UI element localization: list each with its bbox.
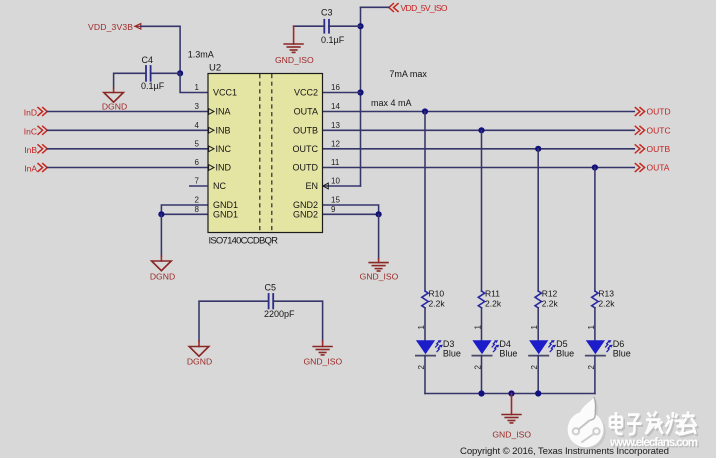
wire junction down to U2 pin 1 (180, 73, 208, 92)
svg-text:IND: IND (216, 163, 232, 173)
svg-text:1: 1 (587, 325, 596, 330)
svg-text:R13: R13 (598, 288, 614, 298)
wire R12 to D5 (537, 308, 539, 341)
wire R11 to D4 (481, 308, 483, 341)
U2 pin 15 GND2 (293, 196, 340, 211)
node OUTD row / R13 column junction (592, 164, 598, 170)
svg-text:InD: InD (24, 108, 37, 118)
input port InC (24, 126, 48, 136)
svg-text:2200pF: 2200pF (264, 309, 295, 319)
svg-text:Blue: Blue (499, 348, 517, 358)
U2 pin 9 GND2 (293, 205, 336, 220)
svg-text:OUTA: OUTA (647, 163, 670, 173)
svg-text:16: 16 (331, 83, 340, 92)
wire U2 pin11 OUTD row (323, 167, 635, 169)
svg-text:DGND: DGND (150, 272, 175, 282)
svg-text:12: 12 (331, 139, 340, 148)
wire U2 pin14 OUTA row (323, 111, 635, 113)
svg-text:1: 1 (530, 325, 539, 330)
svg-text:14: 14 (331, 102, 340, 111)
svg-text:2.2k: 2.2k (485, 299, 502, 309)
svg-text:max 4 mA: max 4 mA (371, 98, 412, 108)
wire D6 to bus (594, 356, 596, 394)
output port OUTA (635, 163, 670, 173)
svg-text:OUTC: OUTC (293, 144, 319, 154)
svg-text:R12: R12 (542, 288, 558, 298)
svg-text:C3: C3 (321, 8, 333, 18)
wire U2 pin16 to vertical (323, 92, 361, 94)
wire VDD_3V3B to vertical (141, 26, 180, 73)
watermark url text (609, 437, 700, 451)
node VDD_3V3B/C4/VCC1 junction (177, 70, 183, 76)
svg-text:OUTB: OUTB (293, 126, 318, 136)
wire D4 to bus (481, 356, 483, 394)
U2 pin 13 OUTB (293, 121, 340, 136)
svg-text:VCC1: VCC1 (213, 88, 237, 98)
svg-text:Blue: Blue (443, 348, 461, 358)
U2 pin 3 INA (195, 102, 231, 117)
capacitor C3 (321, 8, 345, 46)
svg-text:GND_ISO: GND_ISO (492, 429, 531, 439)
U2 pin 8 GND1 (195, 205, 238, 220)
svg-text:1: 1 (474, 325, 483, 330)
node OUTB row / R11 column junction (478, 127, 484, 133)
watermark logo (568, 397, 606, 450)
svg-text:C5: C5 (265, 282, 277, 292)
LED D6 (586, 339, 631, 358)
wire C3 left lead (294, 25, 325, 27)
ground GND_ISO (right of U2) (360, 259, 399, 281)
wire C5 left lead (199, 301, 269, 341)
isolation barrier dashed lines (260, 74, 272, 232)
svg-text:VCC2: VCC2 (294, 88, 318, 98)
svg-text:7: 7 (195, 177, 200, 186)
svg-text:2: 2 (195, 196, 200, 205)
wire U2 pin12 OUTC row (323, 148, 635, 150)
capacitor C4 (141, 55, 165, 91)
svg-text:GND2: GND2 (293, 210, 318, 220)
svg-text:VDD_5V_ISO: VDD_5V_ISO (401, 3, 448, 13)
U2 pin 6 IND (195, 158, 232, 173)
op-amp U2 ISO7140CCDBQR body (208, 62, 323, 246)
svg-text:GND_ISO: GND_ISO (275, 55, 314, 65)
wire U2 pin9 GND2 (323, 213, 379, 215)
svg-text:8: 8 (195, 205, 200, 214)
svg-text:3: 3 (195, 102, 200, 111)
svg-text:R10: R10 (429, 288, 445, 298)
svg-text:10: 10 (331, 177, 340, 186)
node VCC2 junction (357, 89, 363, 95)
node C3 junction (357, 23, 363, 29)
node GND2 junction (376, 211, 382, 217)
ground DGND (under C5) (187, 341, 212, 366)
node bus/D4 junction (478, 390, 484, 396)
svg-text:InA: InA (24, 164, 37, 174)
wire U2 pin 2 GND1 (161, 205, 208, 214)
svg-text:OUTB: OUTB (647, 144, 671, 154)
output port OUTB (635, 144, 670, 154)
svg-text:C4: C4 (142, 55, 154, 65)
node OUTA row / R10 column junction (422, 108, 428, 114)
svg-text:www.elecfans.com: www.elecfans.com (609, 437, 698, 449)
svg-text:R11: R11 (485, 288, 500, 298)
U2 pin 2 GND1 (195, 196, 238, 211)
wire VDD_5V_ISO to vertical (361, 6, 389, 8)
svg-text:OUTC: OUTC (647, 126, 671, 136)
svg-text:InC: InC (24, 126, 37, 136)
svg-text:EN: EN (305, 181, 318, 191)
wire R13 column upper (594, 168, 596, 292)
wire InA to U2 pin 6 (47, 167, 208, 169)
U2 pin 5 INC (195, 139, 232, 154)
wire vertical VDD rail to EN (360, 7, 362, 186)
resistor R13 (592, 288, 616, 308)
input port InA (24, 164, 47, 174)
svg-text:1: 1 (417, 325, 426, 330)
svg-text:2.2k: 2.2k (429, 299, 446, 309)
U2 pin 16 VCC2 (294, 83, 340, 98)
node OUTC row / R12 column junction (535, 146, 541, 152)
svg-text:GND_ISO: GND_ISO (303, 356, 342, 366)
svg-text:OUTA: OUTA (294, 107, 318, 117)
svg-text:6: 6 (195, 158, 200, 167)
input port InD (24, 108, 48, 118)
U2 pin 10 EN (305, 177, 340, 192)
resistor R12 (535, 288, 559, 308)
wire ground bus (425, 393, 595, 395)
ground GND_ISO (bottom) (492, 394, 531, 440)
svg-text:GND_ISO: GND_ISO (360, 271, 399, 281)
ground GND_ISO (under C3) (275, 26, 314, 65)
svg-text:INA: INA (216, 107, 231, 117)
wire C4 left lead (114, 73, 146, 88)
node bus/D5 junction (535, 390, 541, 396)
resistor R10 (422, 288, 446, 308)
svg-text:Blue: Blue (556, 348, 574, 358)
resistor R11 (478, 288, 502, 308)
svg-text:OUTD: OUTD (293, 163, 319, 173)
svg-text:ISO7140CCDBQR: ISO7140CCDBQR (209, 235, 279, 246)
power port VDD_3V3B (88, 22, 141, 32)
wire U2 pin13 OUTB row (323, 129, 635, 131)
svg-text:1.3mA: 1.3mA (188, 50, 214, 60)
input port InB (24, 145, 47, 155)
LED D4 (472, 339, 517, 358)
svg-text:11: 11 (331, 158, 340, 167)
svg-text:InB: InB (24, 145, 37, 155)
LED D5 (529, 339, 574, 358)
wire U2 pin15 GND2 (323, 205, 379, 214)
U2 pin 12 OUTC (293, 139, 341, 154)
svg-text:2.2k: 2.2k (542, 299, 559, 309)
wire C3 right lead (329, 25, 361, 27)
U2 pin 4 INB (195, 121, 231, 136)
svg-text:0.1µF: 0.1µF (141, 81, 165, 91)
output port OUTD (635, 107, 670, 117)
wire InB to U2 pin 5 (47, 148, 208, 150)
ground DGND (under C4) (102, 88, 127, 112)
wire R10 column upper (424, 112, 426, 292)
U2 pin 1 VCC1 (195, 83, 237, 98)
svg-text:4: 4 (195, 121, 200, 130)
svg-text:DGND: DGND (102, 102, 127, 112)
svg-text:13: 13 (331, 121, 340, 130)
wire C4 right lead to junction (151, 72, 181, 74)
wire R13 to D6 (594, 308, 596, 341)
wire GND2 down (378, 214, 380, 259)
wire D5 to bus (537, 356, 539, 394)
wire R11 column upper (481, 130, 483, 291)
wire R10 to D3 (424, 308, 426, 341)
svg-text:2.2k: 2.2k (598, 299, 615, 309)
svg-text:GND1: GND1 (213, 210, 238, 220)
watermark chinese text (612, 413, 699, 436)
svg-text:INC: INC (216, 144, 232, 154)
svg-text:0.1µF: 0.1µF (321, 35, 345, 45)
svg-text:NC: NC (213, 181, 226, 191)
svg-text:U2: U2 (209, 62, 221, 73)
power port VDD_5V_ISO (389, 3, 448, 13)
output port OUTC (635, 126, 670, 136)
wire C5 right lead (273, 301, 322, 341)
wire GND1 down (160, 214, 162, 256)
ground DGND (left of U2) (150, 256, 175, 282)
U2 pin 14 OUTA (294, 102, 341, 117)
svg-text:OUTD: OUTD (647, 107, 671, 117)
U2 pin 7 NC (189, 177, 226, 192)
wire InD to U2 pin 3 (47, 111, 208, 113)
wire R12 column upper (537, 149, 539, 291)
svg-text:7mA max: 7mA max (389, 69, 427, 79)
svg-text:5: 5 (195, 139, 200, 148)
svg-text:Blue: Blue (613, 348, 631, 358)
node GND1 junction (158, 211, 164, 217)
node bus/GND junction (508, 390, 514, 396)
svg-text:15: 15 (331, 196, 340, 205)
wire U2 pin 8 GND1 (161, 213, 208, 215)
svg-text:9: 9 (331, 205, 336, 214)
svg-text:1: 1 (195, 83, 200, 92)
svg-text:INB: INB (216, 126, 231, 136)
svg-text:DGND: DGND (187, 356, 212, 366)
svg-text:VDD_3V3B: VDD_3V3B (88, 22, 133, 32)
wire InC to U2 pin 4 (47, 129, 208, 131)
wire U2 pin10 EN to vertical (323, 185, 361, 187)
U2 pin 11 OUTD (293, 158, 340, 173)
LED D3 (416, 339, 461, 358)
wire D3 to bus (424, 356, 426, 394)
ground GND_ISO (right of C5) (303, 341, 342, 366)
capacitor C5 (264, 282, 295, 319)
